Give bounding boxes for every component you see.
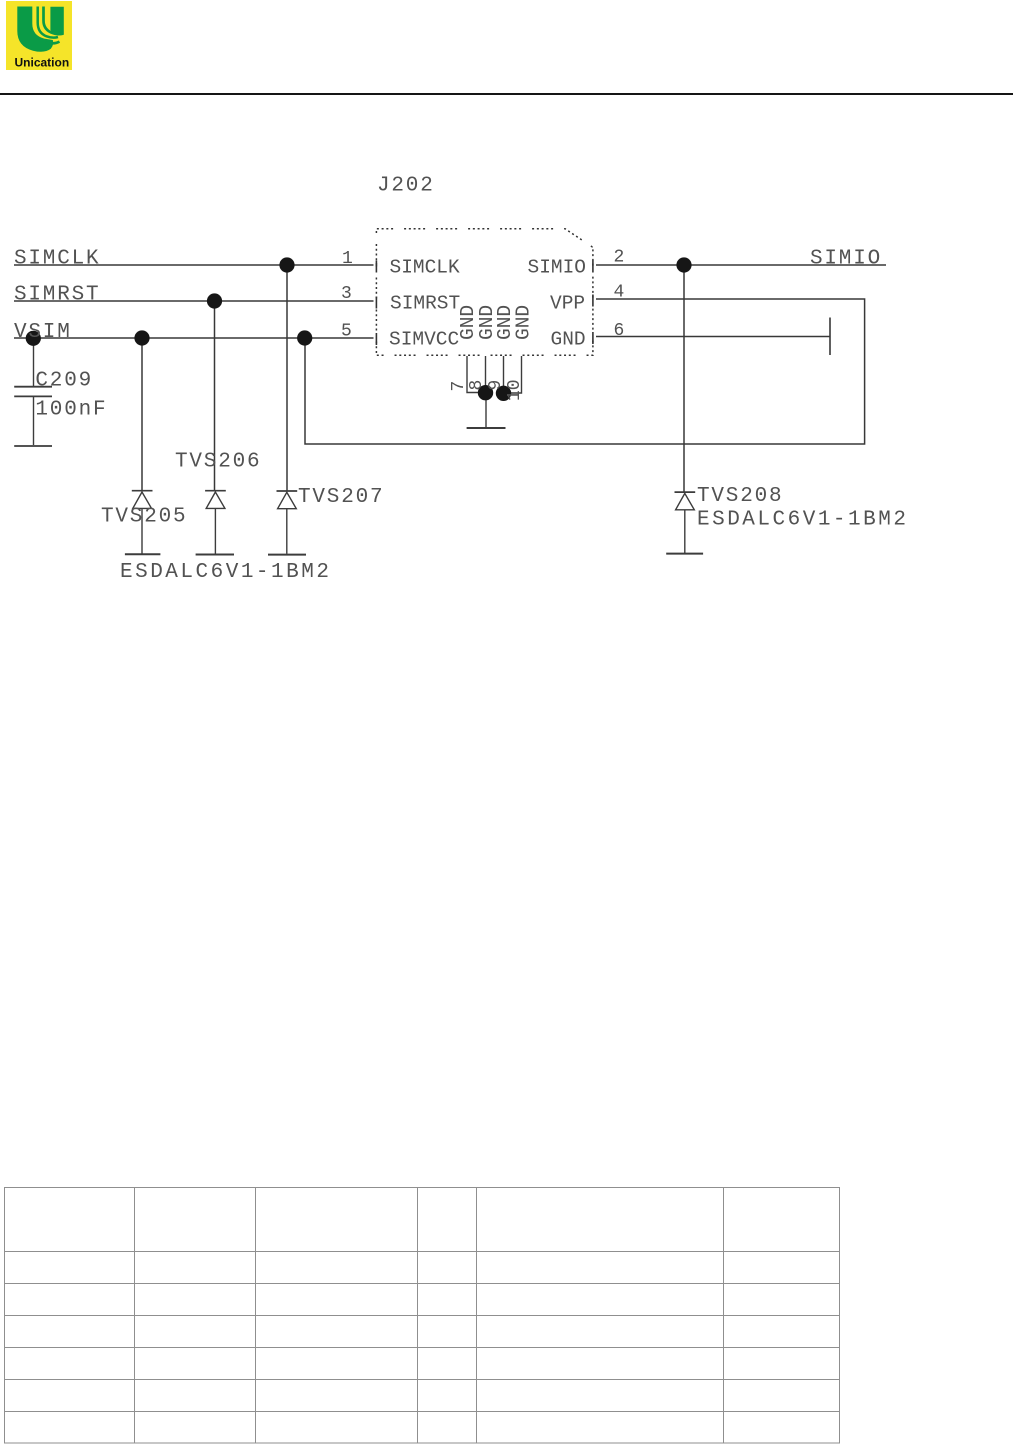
svg-text:100nF: 100nF [35, 399, 107, 422]
wire VSIM net [14, 337, 374, 339]
svg-text:SIMRST: SIMRST [14, 284, 100, 307]
svg-text:TVS207: TVS207 [298, 486, 384, 509]
junction mounting pin 9 [496, 386, 511, 401]
ground bar TVS208 [666, 553, 703, 555]
connector pin ticks [376, 261, 593, 346]
wire TVS206 branch [214, 301, 216, 491]
svg-text:SIMIO: SIMIO [528, 257, 587, 279]
wire SIMIO pin2 [596, 264, 886, 266]
diode TVS206 [196, 491, 234, 555]
svg-text:7: 7 [449, 381, 469, 392]
svg-text:6: 6 [614, 321, 625, 341]
svg-text:GND: GND [551, 329, 586, 351]
svg-text:3: 3 [341, 284, 352, 304]
wire TVS205 branch [141, 338, 143, 491]
svg-text:SIMRST: SIMRST [390, 293, 460, 315]
svg-text:8: 8 [467, 380, 487, 391]
svg-text:VSIM: VSIM [14, 321, 72, 344]
svg-text:2: 2 [614, 248, 625, 268]
svg-text:C209: C209 [35, 370, 93, 393]
svg-text:TVS205: TVS205 [101, 506, 187, 529]
junction mounting pin 8 [478, 385, 493, 400]
mounting pins 7-10 wires [467, 356, 522, 428]
ground bar TVS206 [196, 554, 234, 556]
junction VSIM-VPP loop [297, 330, 312, 345]
svg-text:4: 4 [614, 283, 625, 303]
pin numbers [341, 248, 624, 342]
junction VSIM-C209 [26, 331, 41, 346]
wire VPP pin4 loop [305, 299, 865, 444]
junction VSIM-TVS205 [134, 330, 149, 345]
diode TVS207 [268, 491, 306, 555]
svg-text:Unication: Unication [15, 56, 70, 70]
svg-text:5: 5 [341, 322, 352, 342]
wire SIMCLK net [14, 264, 374, 266]
wire TVS207 branch [286, 265, 288, 491]
ground bar TVS205 [125, 553, 160, 555]
svg-text:ESDALC6V1-1BM2: ESDALC6V1-1BM2 [697, 509, 908, 532]
svg-text:J202: J202 [377, 175, 435, 198]
gnd termination bar pin6 [829, 318, 831, 356]
svg-text:SIMCLK: SIMCLK [14, 248, 100, 271]
junction SIMIO-TVS208 [676, 257, 691, 272]
wire SIMRST net [14, 300, 374, 302]
ground bar C209 [14, 445, 52, 447]
junction SIMCLK-TVS207 [279, 257, 294, 272]
ground bar mounting [467, 427, 506, 429]
svg-text:SIMIO: SIMIO [810, 248, 882, 271]
wire GND pin6 [596, 336, 830, 338]
svg-text:TVS206: TVS206 [175, 451, 261, 474]
svg-text:SIMVCC: SIMVCC [389, 329, 459, 351]
table [5, 1188, 840, 1444]
svg-text:ESDALC6V1-1BM2: ESDALC6V1-1BM2 [120, 561, 331, 584]
diode TVS205 [125, 491, 160, 555]
header rule [0, 93, 1013, 95]
schematic text labels [14, 175, 882, 529]
svg-text:TVS208: TVS208 [697, 485, 783, 508]
capacitor C209 [14, 338, 52, 446]
svg-text:GND: GND [512, 305, 534, 340]
svg-text:1: 1 [342, 249, 353, 269]
rotated GND pin names pins 7-10 [457, 305, 535, 340]
wire TVS208 branch [683, 265, 685, 492]
schematic group [14, 265, 886, 492]
Unication logo [6, 1, 72, 70]
connector inner pin names [389, 257, 586, 351]
ground stem [485, 393, 487, 427]
rotated pin numbers 7 8 9 10 [449, 379, 525, 401]
svg-text:SIMCLK: SIMCLK [390, 257, 461, 279]
ground bar TVS207 [268, 554, 306, 556]
diode TVS208 [666, 492, 703, 553]
svg-text:VPP: VPP [550, 293, 585, 315]
junction SIMRST-TVS206 [207, 293, 222, 308]
svg-text:10: 10 [505, 379, 525, 401]
connector J202 dashed outline [376, 229, 593, 356]
svg-text:9: 9 [486, 380, 506, 391]
